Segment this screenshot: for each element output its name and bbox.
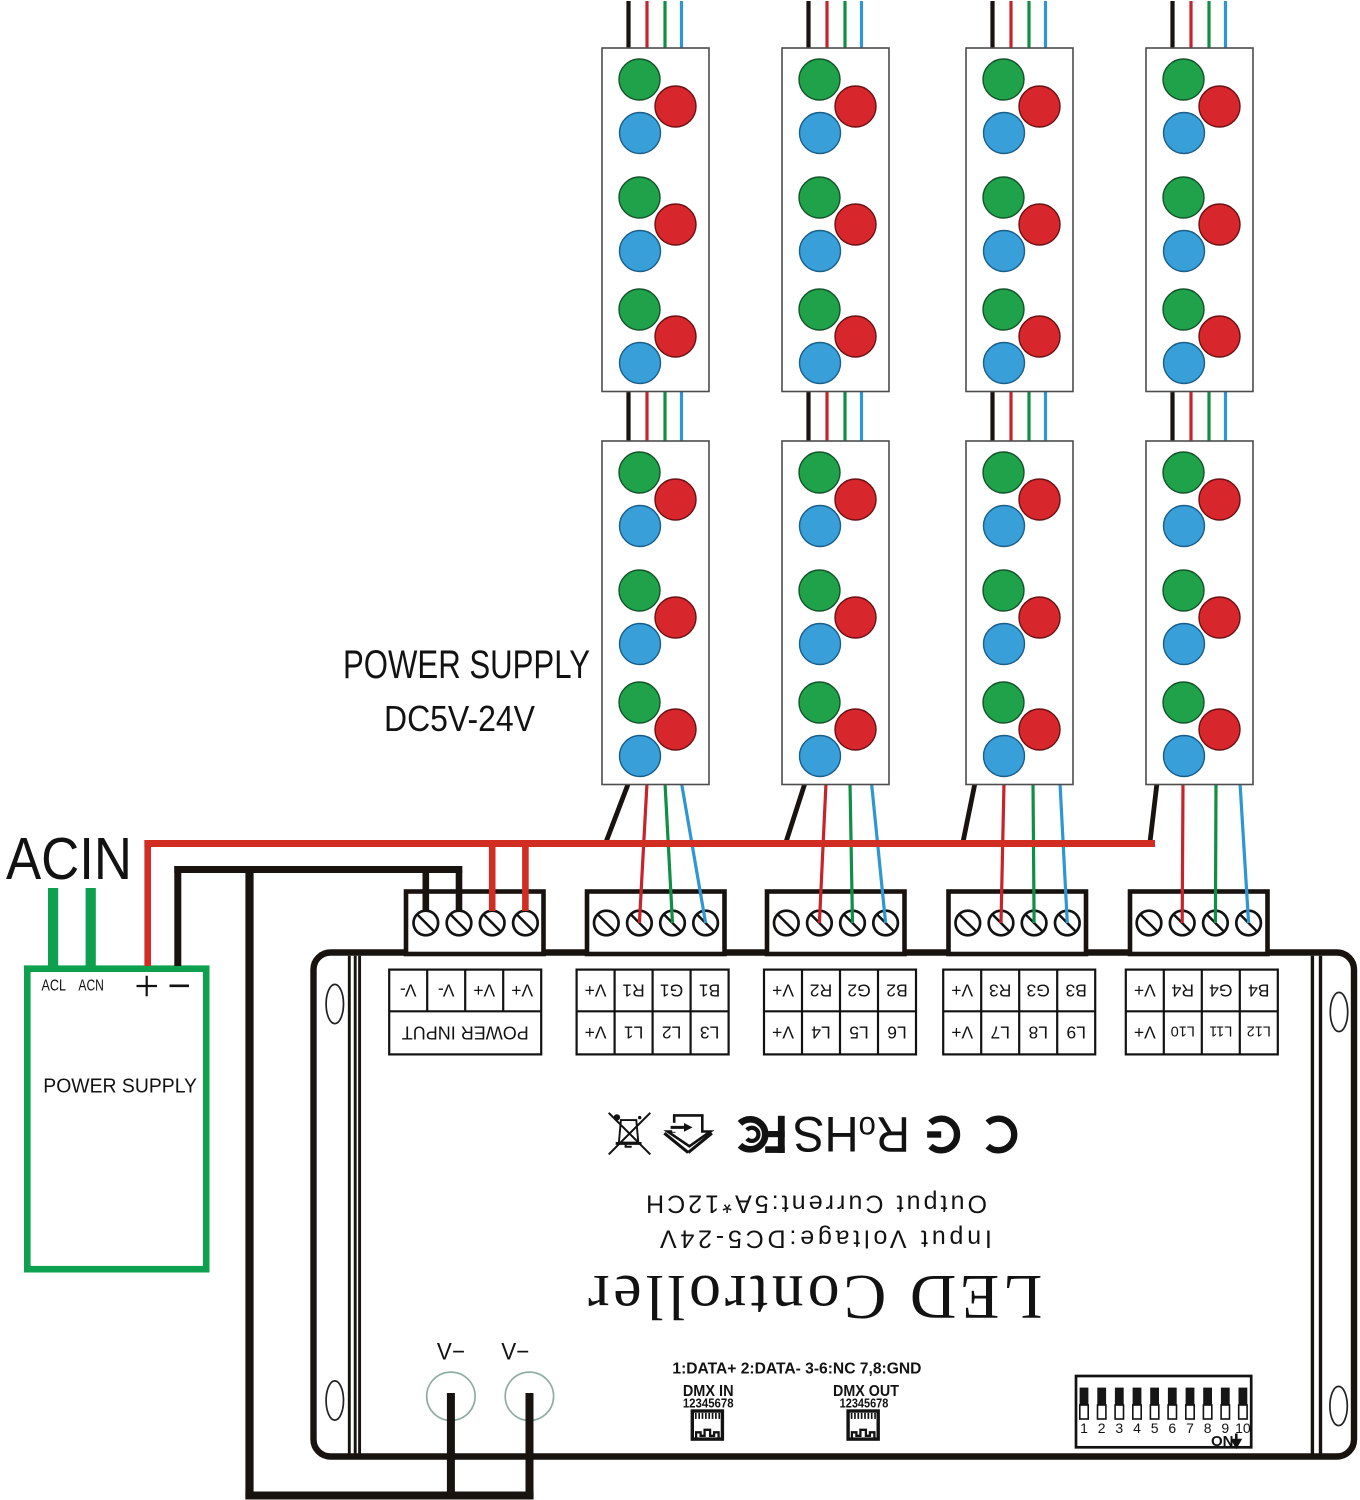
svg-text:ACN: ACN bbox=[78, 978, 104, 995]
wire black from V- post 2 to bottom rail bbox=[526, 1393, 534, 1500]
wire V- long black drop to bottom rail bbox=[245, 866, 253, 1499]
svg-text:V+: V+ bbox=[585, 980, 607, 1000]
svg-text:6: 6 bbox=[1168, 1420, 1176, 1436]
svg-text:12345678: 12345678 bbox=[840, 1396, 889, 1410]
LED strip module row 1 col 1 bbox=[602, 48, 709, 392]
terminal block power input bbox=[406, 892, 544, 955]
svg-text:L8: L8 bbox=[1028, 1023, 1047, 1043]
svg-text:2: 2 bbox=[1098, 1420, 1106, 1436]
wires column 3 strip2 down to controller terminals bbox=[963, 783, 1067, 923]
svg-text:V+: V+ bbox=[772, 980, 794, 1000]
svg-text:V-: V- bbox=[438, 980, 455, 1000]
post circle V- 2 bbox=[505, 1372, 553, 1420]
svg-text:L1: L1 bbox=[624, 1023, 643, 1043]
svg-text:L6: L6 bbox=[887, 1023, 906, 1043]
svg-text:R1: R1 bbox=[622, 980, 644, 1000]
DIP switch SW1 (10 position) bbox=[1076, 1376, 1251, 1447]
svg-text:Output Current:5A*12CH: Output Current:5A*12CH bbox=[646, 1190, 987, 1218]
svg-text:Input Voltage:DC5-24V: Input Voltage:DC5-24V bbox=[660, 1225, 992, 1253]
svg-text:R2: R2 bbox=[810, 980, 832, 1000]
controller right panel rails bbox=[1312, 956, 1320, 1454]
svg-text:R3: R3 bbox=[989, 980, 1011, 1000]
svg-text:L12: L12 bbox=[1247, 1023, 1271, 1039]
svg-text:G4: G4 bbox=[1209, 980, 1233, 1000]
svg-text:LED Controller: LED Controller bbox=[588, 1262, 1042, 1333]
terminal - (V- output) bbox=[170, 984, 190, 987]
svg-text:1:DATA+ 2:DATA- 3-6:NC 7,8:: 1:DATA+ 2:DATA- 3-6:NC 7,8:GND bbox=[672, 1361, 921, 1378]
svg-text:4: 4 bbox=[1133, 1420, 1141, 1436]
wires feed column 1 (black/red/green/blue) top segment bbox=[629, 1, 682, 50]
svg-text:POWER INPUT: POWER INPUT bbox=[402, 1023, 529, 1043]
mounting hole top-right bbox=[1330, 992, 1347, 1031]
wire V- bottom return rail bbox=[245, 1492, 533, 1500]
svg-text:L2: L2 bbox=[662, 1023, 681, 1043]
wires feed column 2 (black/red/green/blue) top segment bbox=[809, 1, 862, 50]
svg-text:V-: V- bbox=[400, 980, 417, 1000]
svg-text:V+: V+ bbox=[1134, 1023, 1156, 1043]
svg-text:L4: L4 bbox=[811, 1023, 831, 1043]
post circle V- 1 bbox=[427, 1372, 475, 1420]
svg-text:POWER SUPPLY: POWER SUPPLY bbox=[43, 1076, 197, 1098]
mounting hole bottom-right bbox=[1330, 1386, 1347, 1425]
wires column 2 strip2 down to controller terminals bbox=[786, 783, 886, 923]
icon WEEE crossed-out bin (rotated) bbox=[609, 1113, 651, 1155]
wire black jumper drops to power input screws 1,2 bbox=[426, 870, 459, 912]
svg-text:L7: L7 bbox=[990, 1023, 1009, 1043]
controller left panel rails bbox=[349, 956, 359, 1454]
wire V+ red: PS plus terminal up to bus corner bbox=[144, 840, 151, 966]
svg-text:L5: L5 bbox=[849, 1023, 868, 1043]
svg-text:L11: L11 bbox=[1209, 1023, 1232, 1039]
label table channel group 2 bbox=[764, 970, 916, 1055]
wire V+ red bus rail bbox=[144, 840, 1155, 847]
terminal block output 4 bbox=[1130, 892, 1268, 955]
label table channel group 4 bbox=[1126, 970, 1278, 1055]
icon FCC mark (rotated) bbox=[740, 1116, 785, 1153]
wire ACN green input wire bbox=[86, 888, 96, 968]
svg-text:L9: L9 bbox=[1066, 1023, 1085, 1043]
svg-text:3: 3 bbox=[1115, 1420, 1123, 1436]
LED strip module row 2 col 2 bbox=[782, 441, 889, 785]
connector RJ45 DMX OUT bbox=[848, 1411, 878, 1439]
svg-text:V+: V+ bbox=[585, 1023, 607, 1043]
power supply PS1 (AC-DC) box bbox=[27, 969, 206, 1269]
svg-text:G3: G3 bbox=[1027, 980, 1050, 1000]
label table channel group 1 bbox=[577, 970, 729, 1055]
svg-text:V+: V+ bbox=[951, 1023, 973, 1043]
svg-text:G1: G1 bbox=[660, 980, 683, 1000]
label table channel group 3 bbox=[943, 970, 1095, 1055]
wires feed column 3 (black/red/green/blue) top segment bbox=[993, 1, 1046, 50]
svg-text:ON: ON bbox=[1211, 1433, 1234, 1450]
LED strip module row 1 col 2 bbox=[782, 48, 889, 392]
svg-text:RoHS: RoHS bbox=[793, 1106, 910, 1162]
LED strip module row 2 col 3 bbox=[966, 441, 1073, 785]
svg-text:B2: B2 bbox=[886, 980, 907, 1000]
wire black from V- post 1 to bottom rail bbox=[447, 1393, 455, 1500]
terminal block output 2 bbox=[767, 892, 905, 955]
svg-text:ACIN: ACIN bbox=[6, 826, 132, 892]
mounting hole top-left bbox=[326, 984, 343, 1023]
svg-text:L3: L3 bbox=[700, 1023, 719, 1043]
svg-text:1: 1 bbox=[1080, 1420, 1088, 1436]
icon insert-arrow mark (rotated) bbox=[664, 1115, 712, 1152]
logo CE (rotated) bbox=[927, 1119, 1014, 1151]
svg-text:5: 5 bbox=[1151, 1420, 1159, 1436]
DIP switch position numbers bbox=[1080, 1420, 1251, 1436]
svg-text:R4: R4 bbox=[1171, 980, 1194, 1000]
svg-text:V+: V+ bbox=[473, 980, 495, 1000]
svg-text:V−: V− bbox=[437, 1338, 465, 1365]
terminal block output 3 bbox=[949, 892, 1087, 955]
wire red V+ drops from bus to power input screws 3,4 bbox=[492, 844, 525, 912]
LED strip module row 1 col 4 bbox=[1146, 48, 1253, 392]
svg-text:V+: V+ bbox=[772, 1023, 794, 1043]
connector RJ45 DMX IN bbox=[692, 1411, 722, 1439]
wires link column 4 strip1 to strip2 bbox=[1173, 389, 1226, 443]
svg-text:ACL: ACL bbox=[42, 978, 67, 995]
svg-text:V−: V− bbox=[501, 1338, 529, 1365]
mounting hole bottom-left bbox=[326, 1381, 343, 1420]
terminal + (V+ output) bbox=[137, 976, 158, 996]
wire V- black horizontal run to power input block bbox=[174, 866, 462, 873]
svg-text:G2: G2 bbox=[847, 980, 870, 1000]
wires link column 1 strip1 to strip2 bbox=[629, 389, 682, 443]
svg-text:DC5V-24V: DC5V-24V bbox=[384, 698, 535, 739]
svg-text:POWER SUPPLY: POWER SUPPLY bbox=[343, 643, 590, 687]
wire ACL green input wire bbox=[48, 888, 58, 968]
terminal block output 1 bbox=[587, 892, 725, 955]
LED strip module row 1 col 3 bbox=[966, 48, 1073, 392]
svg-text:B3: B3 bbox=[1065, 980, 1086, 1000]
LED strip module row 2 col 4 bbox=[1146, 441, 1253, 785]
wire V- black: PS minus terminal up bbox=[174, 866, 181, 966]
svg-text:V+: V+ bbox=[1134, 980, 1156, 1000]
wires link column 3 strip1 to strip2 bbox=[993, 389, 1046, 443]
svg-text:V+: V+ bbox=[511, 980, 533, 1000]
svg-text:7: 7 bbox=[1186, 1420, 1194, 1436]
svg-text:B4: B4 bbox=[1248, 980, 1270, 1000]
wires column 1 strip2 down to controller terminals bbox=[606, 783, 706, 923]
wires feed column 4 (black/red/green/blue) top segment bbox=[1173, 1, 1226, 50]
label table power input bbox=[389, 970, 541, 1055]
wires column 4 strip2 down to controller terminals bbox=[1150, 783, 1249, 923]
LED strip module row 2 col 1 bbox=[602, 441, 709, 785]
wires link column 2 strip1 to strip2 bbox=[809, 389, 862, 443]
svg-text:12345678: 12345678 bbox=[683, 1396, 734, 1410]
svg-text:V+: V+ bbox=[951, 980, 973, 1000]
svg-text:B1: B1 bbox=[699, 980, 720, 1000]
svg-text:L10: L10 bbox=[1171, 1023, 1195, 1039]
LED controller U1 enclosure bbox=[314, 953, 1355, 1457]
